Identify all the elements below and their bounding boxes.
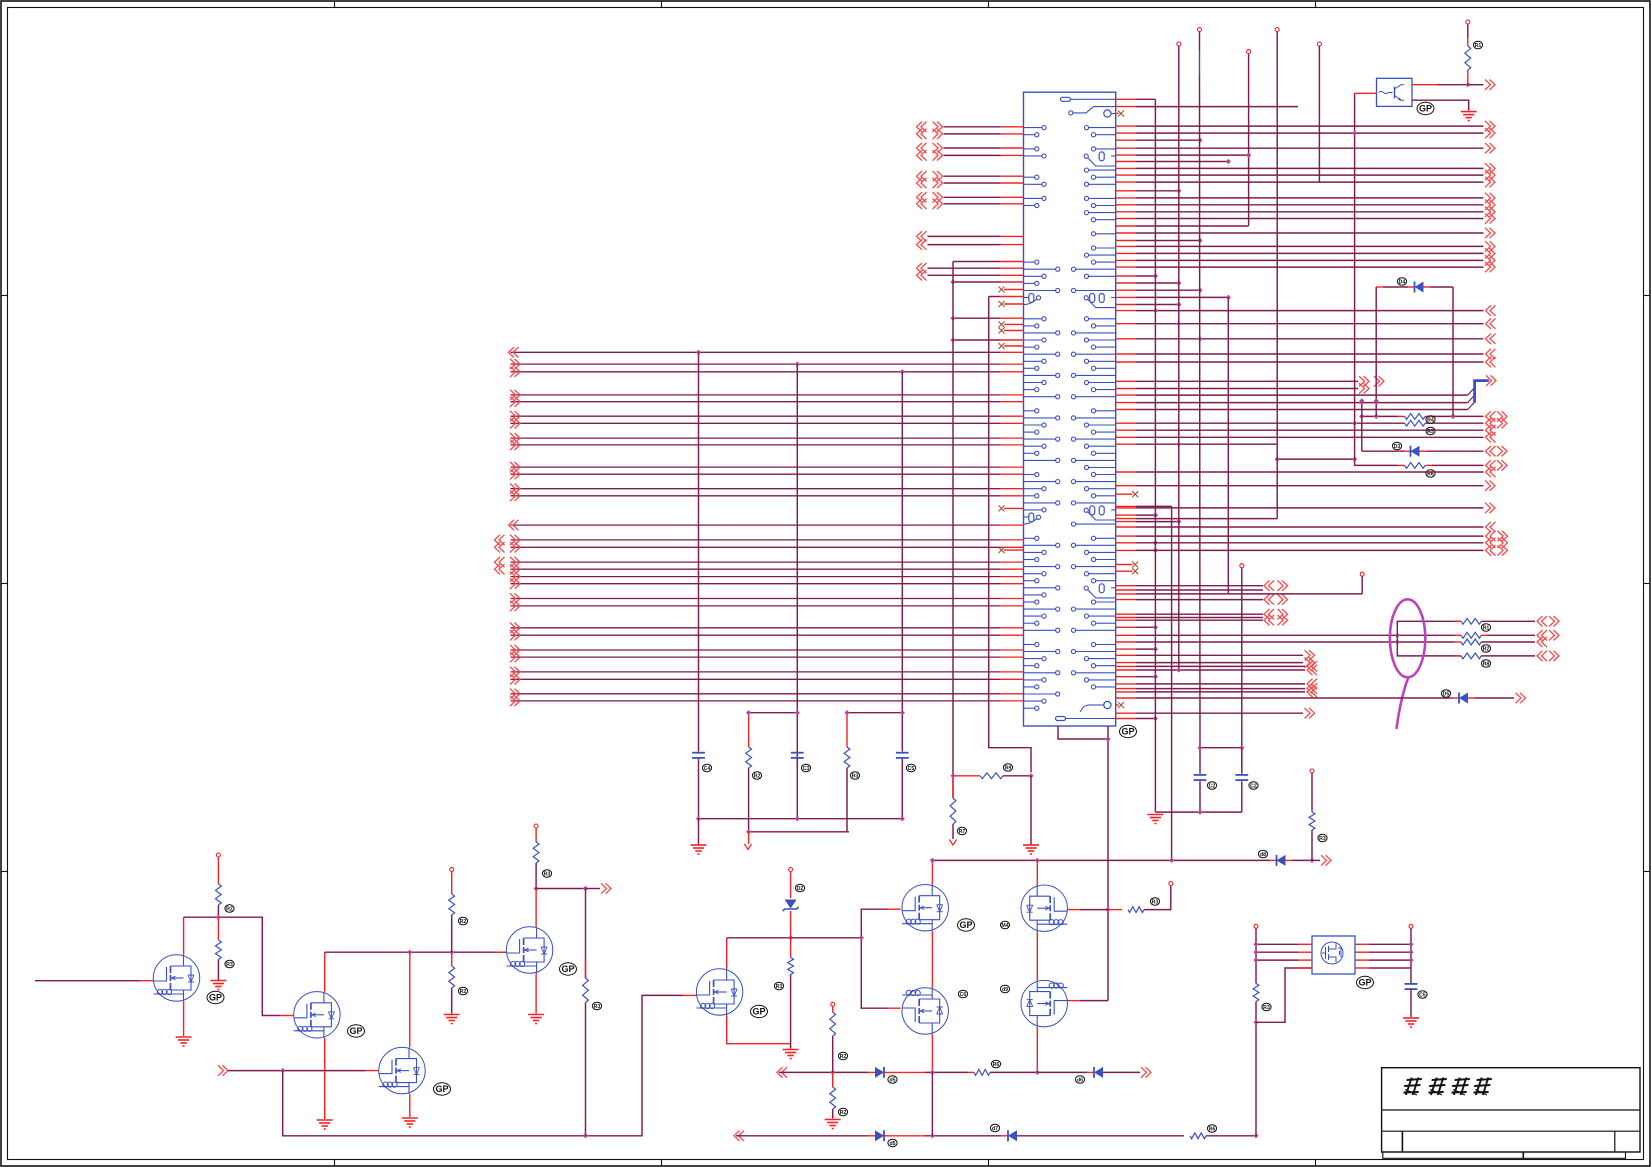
wire — [1286, 859, 1293, 861]
port arrow — [510, 579, 520, 589]
wire — [35, 980, 140, 982]
no-connect — [999, 287, 1005, 293]
port arrow — [1486, 375, 1496, 385]
port arrow — [510, 397, 520, 407]
port arrow — [1485, 121, 1495, 131]
svg-text:R2: R2 — [460, 989, 467, 995]
wire — [1298, 951, 1312, 953]
wire — [183, 1001, 185, 1036]
svg-text:d6: d6 — [1077, 1077, 1083, 1083]
wire red stub — [1116, 218, 1136, 220]
wire red stub — [1001, 317, 1024, 319]
port arrow — [510, 418, 520, 428]
label — [850, 772, 859, 780]
wire red stub — [1116, 310, 1136, 312]
diode D4 — [1415, 282, 1424, 293]
wire red stub — [1116, 402, 1136, 404]
wire red stub — [1116, 197, 1136, 199]
ground — [528, 1015, 544, 1024]
wire red stub — [1116, 549, 1136, 551]
terminal T17 — [1409, 924, 1413, 928]
terminal T3 — [1198, 28, 1202, 32]
stub wire — [928, 244, 1001, 246]
resistor R21 — [746, 747, 752, 768]
wire — [790, 975, 792, 1044]
wire — [1376, 286, 1383, 288]
border zone tick bottom — [334, 1160, 336, 1167]
wire red stub — [1116, 718, 1136, 720]
junction — [930, 858, 935, 863]
GP label (module) — [1357, 976, 1374, 988]
junction — [1246, 153, 1251, 158]
junction — [1176, 302, 1181, 307]
wire — [1255, 1002, 1257, 1136]
wire — [953, 775, 980, 777]
port arrows — [1486, 531, 1496, 541]
wire — [1398, 464, 1405, 466]
svg-text:M4: M4 — [1001, 923, 1008, 929]
wire red stub — [1001, 394, 1024, 396]
no-connect — [999, 301, 1005, 307]
wire red stub — [1001, 488, 1024, 490]
junction — [1246, 153, 1251, 158]
junction — [1153, 308, 1158, 313]
resistor R56 — [583, 978, 589, 1003]
svg-text:R9: R9 — [1005, 765, 1012, 771]
junction — [859, 935, 864, 940]
border zone tick right — [1644, 583, 1651, 585]
svg-text:R2: R2 — [840, 1054, 847, 1060]
label — [542, 870, 551, 878]
wire red stub — [1116, 505, 1136, 507]
wire — [183, 917, 185, 955]
wire red stub — [1116, 683, 1136, 685]
port arrow — [1485, 207, 1495, 217]
bus wire — [511, 649, 1001, 651]
svg-text:C3: C3 — [803, 766, 810, 772]
port arrow — [1305, 657, 1315, 667]
wire red stub — [1001, 700, 1024, 702]
label — [906, 764, 915, 772]
svg-text:R2: R2 — [754, 773, 761, 779]
port arrows — [1486, 411, 1496, 421]
border zone tick bottom — [661, 1160, 663, 1167]
wire red stub — [1001, 605, 1024, 607]
stub wire — [928, 267, 1001, 269]
wire — [1298, 967, 1312, 969]
port arrows — [1264, 581, 1274, 591]
junction — [1153, 647, 1158, 652]
wire — [451, 915, 453, 952]
terminal T14 — [1169, 882, 1173, 886]
wire red stub — [1116, 589, 1136, 591]
wire red stub — [1116, 443, 1136, 445]
wire M5 gate stub — [683, 994, 696, 996]
wire — [1256, 951, 1298, 953]
svg-text:R3: R3 — [544, 871, 551, 877]
wire — [535, 889, 537, 927]
wire — [1312, 859, 1320, 861]
wire red stub — [1001, 466, 1024, 468]
wire red stub — [1116, 232, 1136, 234]
wire — [868, 1135, 875, 1137]
bus wire — [511, 495, 1001, 497]
junction — [1239, 745, 1244, 750]
wire — [1397, 621, 1461, 656]
bus wire — [511, 422, 1001, 424]
wire red stub — [1116, 338, 1136, 340]
port arrow — [510, 440, 520, 450]
junction — [1395, 633, 1400, 638]
wire — [409, 1094, 411, 1117]
wire — [217, 960, 219, 981]
label — [1481, 660, 1490, 668]
label — [957, 827, 966, 835]
wire terminal net — [1136, 518, 1277, 520]
wire red stub — [1116, 593, 1136, 595]
wire nc stub — [1004, 303, 1024, 305]
wire — [1037, 1071, 1087, 1073]
port arrow — [1485, 241, 1495, 251]
wire comb net — [1136, 240, 1200, 242]
resistor R41 — [1461, 632, 1481, 638]
port arrows — [1537, 616, 1547, 626]
net wire — [1136, 471, 1484, 473]
junction — [1176, 280, 1181, 285]
junction — [795, 710, 800, 715]
wire — [1270, 859, 1277, 861]
port arrows — [917, 129, 927, 139]
net wire — [1136, 662, 1303, 664]
net wire — [1136, 688, 1305, 690]
junction — [1153, 625, 1158, 630]
terminal T15 — [831, 1002, 835, 1006]
wire — [884, 1071, 925, 1073]
bus wire — [511, 437, 1001, 439]
svg-text:d7: d7 — [992, 1126, 998, 1132]
junction — [1153, 674, 1158, 679]
port arrow — [1485, 143, 1495, 153]
wire — [790, 911, 792, 938]
label — [991, 1060, 1000, 1068]
svg-text:GP: GP — [1121, 727, 1134, 737]
wire — [931, 1072, 933, 1135]
port arrow — [1486, 425, 1496, 435]
bus ripper — [1475, 381, 1489, 403]
junction — [1253, 942, 1258, 947]
port arrow — [510, 491, 520, 501]
wire red stub — [1001, 235, 1024, 237]
stub wire — [944, 203, 1001, 205]
GP label — [434, 1083, 451, 1095]
net wire — [1136, 526, 1484, 528]
wire — [1298, 943, 1312, 945]
svg-text:R1: R1 — [1483, 625, 1490, 631]
no-connect — [1118, 111, 1124, 117]
wire — [1369, 959, 1411, 961]
label — [1481, 645, 1490, 653]
svg-text:GP: GP — [1419, 104, 1432, 114]
label — [1473, 41, 1482, 49]
wire — [1355, 943, 1369, 945]
wire — [1362, 450, 1404, 452]
border zone tick top — [1315, 1, 1317, 8]
wire V1171 feed — [1136, 505, 1172, 507]
port arrow — [1141, 1067, 1151, 1077]
wire — [536, 888, 585, 890]
wire — [1256, 943, 1298, 945]
svg-text:GP: GP — [1358, 978, 1371, 988]
bus wire — [511, 524, 1001, 526]
wire — [925, 1135, 1001, 1137]
junction — [930, 1070, 935, 1075]
wire — [1425, 422, 1483, 424]
wire — [932, 859, 1270, 861]
wire red stub — [1116, 409, 1136, 411]
wire red stub — [1001, 524, 1024, 526]
wire — [1437, 100, 1469, 110]
port arrows — [917, 122, 927, 132]
port arrows — [917, 178, 927, 188]
bus ripper diagonals — [1468, 388, 1475, 410]
border zone tick top — [661, 1, 663, 8]
junction — [1253, 1133, 1258, 1138]
svg-text:GP: GP — [209, 993, 222, 1003]
wire — [1467, 38, 1469, 46]
port arrows — [1537, 630, 1547, 640]
port arrow — [1486, 305, 1496, 315]
port arrow — [510, 469, 520, 479]
wire red stub — [1001, 371, 1024, 373]
wire — [217, 917, 219, 940]
wire — [1277, 458, 1354, 460]
wire V1171 — [1171, 506, 1173, 860]
wire — [1425, 415, 1432, 417]
label — [888, 1139, 897, 1147]
net wire — [1136, 613, 1263, 615]
bus wire — [511, 678, 1001, 680]
bus wire N2 — [511, 363, 1001, 365]
no-connect — [1132, 568, 1138, 574]
label — [1426, 416, 1435, 424]
wire red stub — [1116, 211, 1136, 213]
port arrows — [1537, 651, 1547, 661]
label — [1426, 470, 1435, 478]
wire red stub — [1001, 415, 1024, 417]
junction — [1176, 188, 1181, 193]
wire — [1355, 959, 1369, 961]
junction — [1197, 745, 1202, 750]
wire — [1255, 928, 1257, 983]
connector pin 3 (shield ring) — [1104, 110, 1111, 117]
border zone tick left — [1, 871, 8, 873]
wire — [726, 938, 728, 969]
port arrows — [1486, 545, 1496, 555]
wire — [1355, 92, 1377, 94]
junction — [1352, 457, 1357, 462]
junction — [407, 950, 412, 955]
wire red stub — [1116, 252, 1136, 254]
wire — [1080, 1000, 1108, 1002]
wire — [228, 1070, 365, 1072]
wire red stub — [1116, 225, 1136, 227]
port arrow — [1486, 334, 1496, 344]
wire — [1354, 464, 1356, 467]
wire net 444 — [1136, 443, 1277, 445]
wire red stub — [1116, 380, 1136, 382]
no-connect — [999, 505, 1005, 511]
port arrows — [1486, 538, 1496, 548]
port arrow — [510, 571, 520, 581]
wire — [451, 952, 453, 966]
wire red stub — [1116, 125, 1136, 127]
wire — [1410, 928, 1412, 983]
svg-text:R3: R3 — [1263, 1005, 1270, 1011]
wire V797 — [796, 364, 798, 770]
junction — [1253, 950, 1258, 955]
wire red stub — [1116, 394, 1136, 396]
junction — [1153, 716, 1158, 721]
stub wire — [944, 196, 1001, 198]
port arrow — [510, 390, 520, 400]
net wire — [1136, 585, 1263, 587]
wire — [1199, 781, 1201, 812]
label — [838, 1052, 847, 1060]
net wire — [1136, 323, 1484, 325]
wire V1453 — [1452, 287, 1454, 416]
wire — [698, 819, 700, 845]
junction — [1450, 414, 1455, 419]
wire red stub — [1001, 175, 1024, 177]
terminal T4 — [1247, 50, 1251, 54]
net wire — [1136, 589, 1263, 591]
bus wire — [511, 568, 1001, 570]
junction — [746, 710, 751, 715]
port arrow — [1305, 708, 1315, 718]
wire V1376 — [1375, 287, 1377, 416]
wire — [1420, 450, 1428, 452]
svg-text:D4: D4 — [1399, 279, 1406, 285]
wire red stub — [1116, 634, 1136, 636]
diode D9 — [875, 1130, 884, 1141]
wire — [779, 1071, 868, 1073]
wire — [1437, 84, 1468, 86]
port arrow — [1307, 679, 1317, 689]
wire red stub — [1116, 669, 1136, 671]
junction — [1153, 513, 1158, 518]
wire red stub — [1001, 539, 1024, 541]
label — [1441, 690, 1450, 698]
wire — [749, 712, 798, 714]
label — [1318, 834, 1327, 842]
wire rail 937 — [727, 937, 791, 939]
junction — [534, 886, 539, 891]
wire comb net — [1136, 190, 1179, 192]
stub wire — [944, 147, 1001, 149]
wire — [1455, 634, 1462, 636]
wire — [901, 759, 903, 819]
net wire — [1136, 174, 1484, 176]
net wire — [1136, 353, 1484, 355]
bus wire — [511, 605, 1001, 607]
wire — [1412, 84, 1437, 86]
port arrow — [510, 696, 520, 706]
wire M7 gate stub — [888, 1007, 901, 1009]
title text (company name) — [1402, 1078, 1492, 1096]
ground — [402, 1118, 418, 1127]
junction — [795, 816, 800, 821]
junction — [1176, 519, 1181, 524]
wire red stub — [1116, 688, 1136, 690]
wire red stub — [1001, 267, 1024, 269]
wire comb net — [1136, 139, 1200, 141]
bus wire — [511, 583, 1001, 585]
junction — [1153, 540, 1158, 545]
wire red stub — [1116, 697, 1136, 699]
junction — [1197, 810, 1202, 815]
transistor Q5 — [696, 969, 742, 1015]
label — [1426, 427, 1435, 435]
svg-text:GP: GP — [349, 1026, 362, 1036]
label — [990, 1124, 999, 1132]
bus wire — [511, 415, 1001, 417]
ground — [444, 1015, 460, 1024]
net wire — [1136, 310, 1484, 312]
wire — [1410, 988, 1412, 1017]
svg-text:GP: GP — [435, 1084, 448, 1094]
label — [1481, 624, 1490, 632]
wire — [931, 931, 933, 988]
border zone tick bottom — [988, 1160, 990, 1167]
svg-text:d5: d5 — [889, 1077, 895, 1083]
svg-text:R6: R6 — [1209, 1126, 1216, 1132]
wire red stub — [1001, 126, 1024, 128]
wire — [1241, 748, 1243, 774]
wire — [217, 905, 219, 917]
wire — [748, 832, 750, 844]
junction — [900, 369, 905, 374]
wire V1241 — [1241, 568, 1243, 771]
capacitor — [791, 752, 804, 754]
wire red stub — [1001, 546, 1024, 548]
optocoupler U2 — [1377, 78, 1413, 106]
wire — [1256, 968, 1312, 1022]
svg-text:GP: GP — [959, 920, 972, 930]
wire — [1398, 415, 1405, 417]
no-connect — [1132, 562, 1138, 568]
net wire — [1136, 259, 1484, 261]
wire — [1488, 634, 1536, 636]
label — [1392, 442, 1401, 450]
junction — [1176, 321, 1181, 326]
net wire T1 — [1136, 593, 1362, 595]
junction — [788, 935, 793, 940]
wire — [140, 980, 153, 982]
wire red stub — [1116, 599, 1136, 601]
svg-text:R2: R2 — [1483, 646, 1490, 652]
wire — [1383, 286, 1408, 288]
net wire — [1136, 232, 1484, 234]
wire red stub — [1116, 422, 1136, 424]
junction — [1197, 288, 1202, 293]
bus wire — [511, 700, 1001, 702]
junction — [1105, 736, 1110, 741]
wire — [1362, 415, 1398, 417]
junction — [1408, 958, 1413, 963]
wire — [451, 871, 453, 894]
port arrow — [1486, 349, 1496, 359]
junction — [950, 337, 955, 342]
